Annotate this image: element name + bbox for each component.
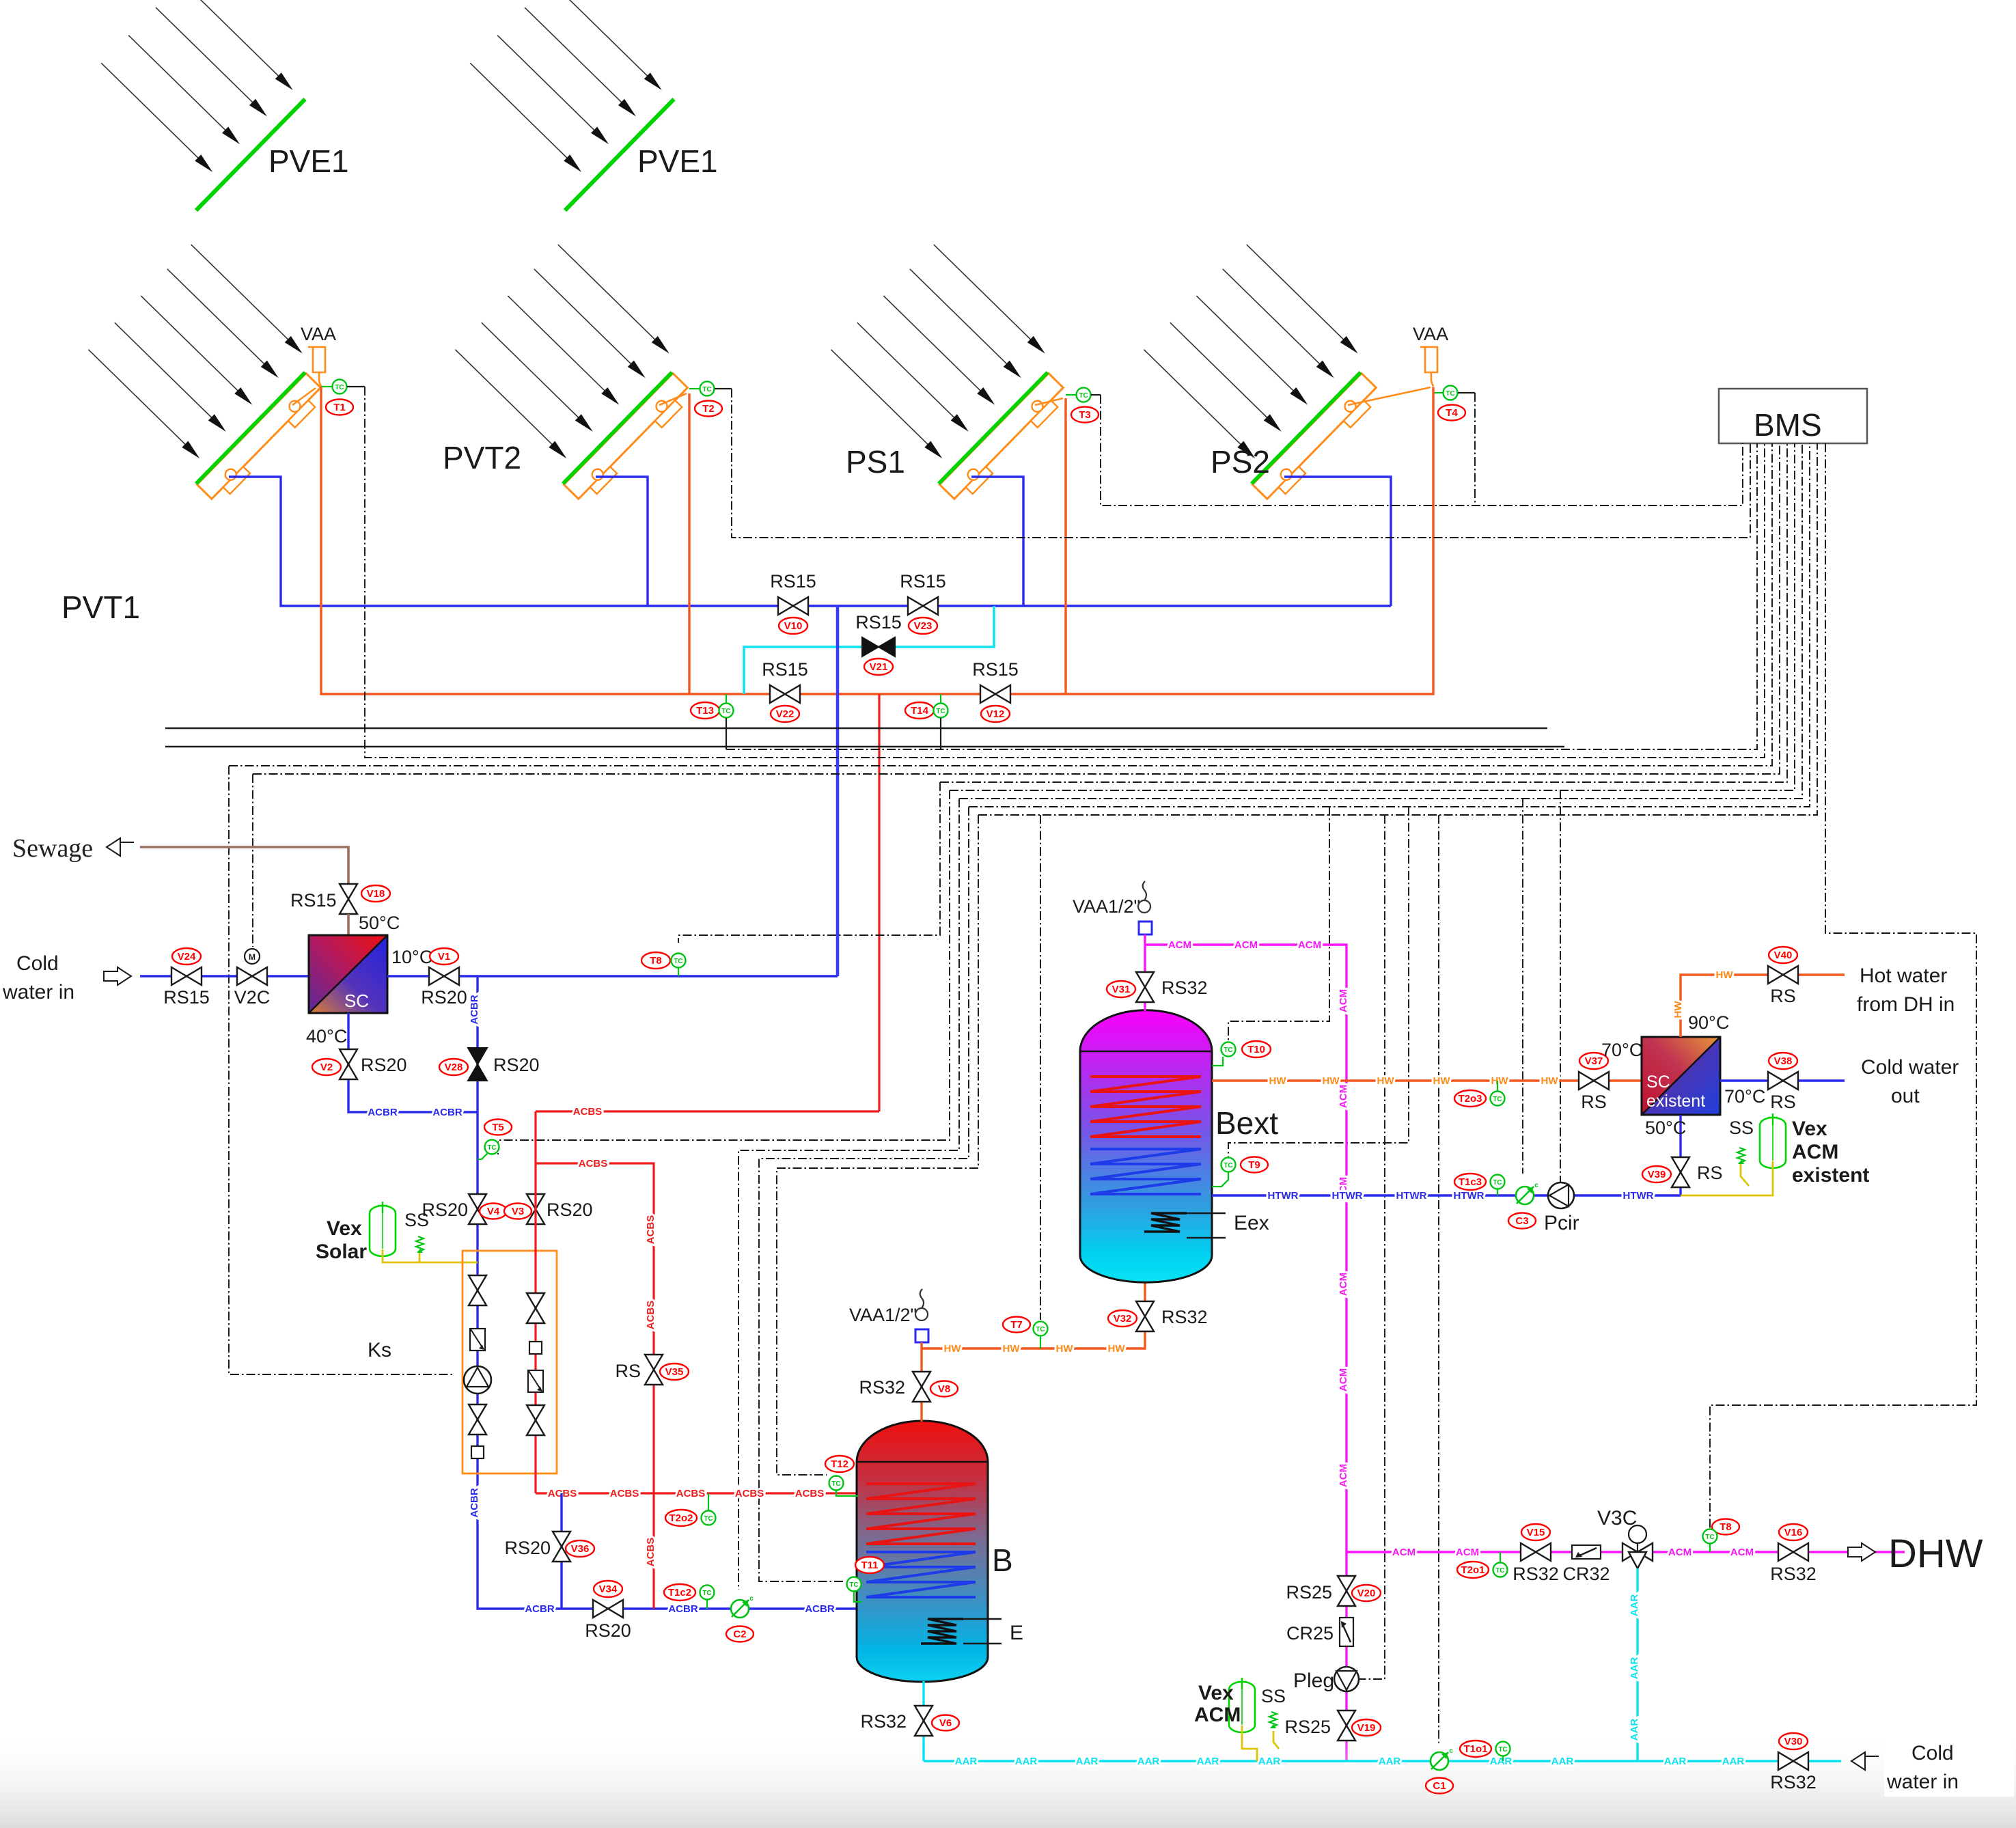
valve RS15 V24 [171,967,202,985]
svg-text:V40: V40 [1774,950,1793,961]
svg-text:BMS: BMS [1754,407,1822,443]
drain square Ks [471,1446,484,1458]
svg-text:HW: HW [1056,1343,1074,1355]
svg-text:ACM: ACM [1792,1141,1838,1163]
svg-text:RS15: RS15 [972,659,1019,680]
wire blue SC existent bottom [1679,1115,1681,1195]
svg-text:M: M [249,952,256,962]
wire red ACBS stack [534,1111,536,1493]
roof line 1 [165,728,1547,730]
svg-text:HW: HW [1541,1075,1559,1087]
svg-text:Eex: Eex [1234,1212,1269,1234]
sensor TC T9 [1221,1158,1236,1172]
svg-text:50°C: 50°C [359,913,400,933]
svg-text:T2o1: T2o1 [1461,1564,1485,1576]
roof line 2 [165,746,1564,748]
svg-text:AAR: AAR [1664,1756,1687,1767]
sensor TC T2 [689,388,700,389]
sensor TC T14 [905,702,934,719]
svg-text:CR32: CR32 [1562,1564,1610,1584]
collector PVT1 [74,241,338,506]
svg-text:HTWR: HTWR [1623,1190,1654,1202]
tank Bext [1080,1010,1212,1283]
heater E in B [921,1619,963,1644]
safety valve SS ACM [1269,1712,1277,1728]
svg-text:ACBR: ACBR [525,1603,554,1615]
expansion vessel Vex ACM existent [1760,1113,1786,1168]
svg-text:T1c3: T1c3 [1459,1176,1482,1188]
svg-text:ACM: ACM [1668,1547,1691,1558]
wire magenta Bext top [1144,934,1146,1011]
sewage arrow [107,838,134,856]
sensor TC T12 [825,1456,854,1472]
svg-text:V23: V23 [914,620,933,632]
svg-text:SS: SS [1729,1118,1754,1138]
svg-text:HTWR: HTWR [1454,1190,1485,1202]
coil red in B [866,1484,976,1544]
svg-text:T8: T8 [1720,1521,1732,1533]
svg-text:PVT1: PVT1 [61,590,140,625]
valve RS32 V15 [1521,1543,1551,1561]
svg-text:SC: SC [344,991,369,1011]
wire red ACBS top link [536,1110,879,1112]
svg-text:RS15: RS15 [290,890,337,911]
signal bus Pleg [1359,815,1385,1679]
wire magenta ACM riser [1145,945,1347,1761]
svg-text:SS: SS [1261,1686,1286,1706]
svg-text:PVE1: PVE1 [268,143,349,179]
svg-text:ACM: ACM [1338,1368,1349,1391]
sensor TC T2o1 [1457,1562,1489,1578]
wire cyan bypass [744,606,994,694]
svg-text:70°C: 70°C [1601,1040,1642,1060]
svg-text:ACBS: ACBS [676,1488,706,1499]
pump Pleg [1334,1667,1359,1691]
svg-text:AAR: AAR [1722,1756,1745,1767]
svg-text:V19: V19 [1357,1722,1376,1734]
wire blue SC outlet to riser [387,975,838,977]
wire red ACBS main to tank B [536,1492,857,1494]
svg-text:ACM: ACM [1338,1464,1349,1487]
signal bus T7 [1040,815,1041,1320]
svg-text:DHW: DHW [1888,1532,1983,1576]
svg-text:water in: water in [2,981,74,1003]
svg-text:V2C: V2C [234,987,271,1008]
svg-text:V15: V15 [1527,1527,1545,1538]
svg-text:ACM: ACM [1456,1547,1479,1558]
svg-text:ACM: ACM [1730,1547,1754,1558]
svg-text:ACM: ACM [1194,1704,1241,1726]
wire PVT2 orange stub [659,393,687,405]
svg-text:RS20: RS20 [585,1620,631,1641]
filter on ACBR in Ks [470,1329,485,1351]
valve RS20 V3 [527,1194,544,1224]
svg-text:AAR: AAR [1258,1756,1281,1767]
svg-text:RS32: RS32 [859,1377,905,1398]
sensor TC T2o3 [1454,1090,1486,1107]
svg-text:Vex: Vex [327,1217,362,1240]
svg-text:RS15: RS15 [163,987,210,1008]
valve RS32 V16 [1778,1543,1808,1561]
svg-text:Ks: Ks [368,1339,391,1361]
svg-text:RS: RS [1697,1163,1723,1183]
valve RS32 V32 [1136,1301,1154,1331]
signal bus T11 [969,443,1810,807]
sensor TC T1o1 [1460,1741,1491,1757]
svg-text:RS: RS [1581,1092,1607,1112]
svg-text:AAR: AAR [1015,1756,1038,1767]
signal bus Ks pump [229,443,1772,766]
svg-text:C3: C3 [1515,1215,1528,1227]
svg-text:T1c2: T1c2 [668,1587,691,1598]
svg-text:ACBS: ACBS [610,1488,639,1499]
signal bus outer to T8 DHW [1710,443,1976,1529]
expansion vessel Vex ACM [1229,1678,1255,1732]
wire PVT2 blue drop [596,477,648,606]
valve RS20 V2 [340,1049,357,1079]
svg-text:C2: C2 [733,1629,746,1640]
svg-text:water in: water in [1886,1771,1959,1793]
svg-text:HTWR: HTWR [1396,1190,1427,1202]
svg-text:70°C: 70°C [1724,1086,1765,1107]
svg-text:T2o2: T2o2 [669,1512,693,1524]
wire PS1 orange drop [1064,398,1066,694]
sensor TC T3 [1066,394,1076,396]
valve RS V38 [1768,1072,1798,1090]
svg-text:HW: HW [1323,1075,1340,1087]
valve RS32 V30 [1778,1752,1808,1770]
svg-text:Vex: Vex [1792,1118,1827,1140]
svg-text:SC: SC [1646,1072,1670,1092]
svg-text:V1: V1 [438,951,450,963]
svg-text:RS15: RS15 [900,571,946,592]
svg-text:T14: T14 [911,705,929,717]
svg-text:RS32: RS32 [1161,1307,1208,1327]
svg-text:V18: V18 [367,888,385,900]
valve RS20 V34 [593,1600,623,1618]
signal bus C2 [959,443,1802,799]
sensor TC T7 [1003,1317,1030,1333]
sensor TC T4 [1433,392,1443,393]
svg-text:Bext: Bext [1215,1105,1278,1141]
svg-text:T1o1: T1o1 [1463,1743,1487,1755]
svg-text:RS32: RS32 [1770,1772,1817,1792]
heat exchanger SC existent [1642,1037,1720,1115]
svg-text:HW: HW [1003,1343,1021,1355]
signal bus T8 [940,443,1787,782]
svg-text:V32: V32 [1114,1313,1132,1325]
svg-text:RS: RS [1770,1092,1796,1112]
wire brown to SC [347,914,350,935]
svg-text:V31: V31 [1112,984,1131,995]
svg-text:HW: HW [1672,1001,1684,1019]
valve RS15 V23 [908,597,938,615]
safety valve SS solar [416,1236,424,1253]
valve RS32 V8 [913,1372,930,1402]
svg-text:RS20: RS20 [493,1055,540,1075]
svg-text:ACM: ACM [1234,939,1258,951]
valve RS V40 [1768,966,1798,984]
svg-text:V37: V37 [1585,1055,1603,1067]
valve RS15 V21 closed [862,637,895,656]
svg-text:RS25: RS25 [1286,1582,1332,1603]
svg-text:Hot water: Hot water [1860,965,1947,987]
check valve CR32 [1572,1545,1601,1559]
valve RS25 V19 [1338,1711,1355,1741]
svg-text:AAR: AAR [1551,1756,1574,1767]
svg-text:V3C: V3C [1597,1507,1637,1529]
signal bus T3/T4 to BMS [1101,395,1743,506]
signal T1 bus [365,387,1765,758]
svg-text:CR25: CR25 [1286,1623,1334,1644]
svg-text:HW: HW [1269,1075,1287,1087]
valve on ACBS in Ks lower [527,1405,544,1435]
pump Ks [464,1366,491,1394]
svg-text:AAR: AAR [1379,1756,1401,1767]
svg-text:T10: T10 [1247,1044,1265,1055]
relief valve VAA on PVT1 [308,347,325,372]
svg-text:T1: T1 [333,402,346,413]
svg-text:V12: V12 [986,708,1005,720]
valve RS32 V6 [915,1706,933,1736]
svg-text:C1: C1 [1433,1780,1446,1792]
svg-text:RS20: RS20 [361,1055,407,1075]
collector PS2 [1129,241,1394,506]
svg-text:RS32: RS32 [860,1711,907,1732]
signal bus C1 [1438,815,1439,1743]
wire red drop to ACBS [878,694,880,1111]
valve on ACBR in Ks [469,1275,486,1305]
sensor TC T1c2 [664,1584,695,1601]
svg-text:AAR: AAR [1629,1719,1640,1741]
svg-text:V24: V24 [178,951,196,963]
sensor TC T8 [641,952,670,969]
3-way valve V3C [1623,1525,1653,1568]
filter on ACBS in Ks [528,1370,543,1392]
valve RS15 V12 [980,685,1010,703]
valve RS15 V10 [778,597,808,615]
svg-text:RS15: RS15 [762,659,808,680]
svg-text:ACBS: ACBS [735,1488,764,1499]
svg-text:V16: V16 [1784,1527,1803,1538]
svg-text:ACBR: ACBR [432,1107,462,1118]
svg-text:V21: V21 [870,661,888,673]
svg-text:10°C: 10°C [391,947,432,967]
svg-text:HTWR: HTWR [1268,1190,1299,1202]
valve RS20 V36 bypass [560,1493,562,1609]
wire blue HTWR [1212,1194,1681,1196]
wire cyan AAR from V3C [1636,1568,1638,1761]
wire PS1 orange stub [1035,398,1063,405]
svg-text:T12: T12 [831,1458,848,1470]
signal bus V2C [253,443,1780,774]
svg-text:T13: T13 [696,705,714,717]
svg-text:VAA1/2": VAA1/2" [1073,896,1140,917]
valve RS20 V28 closed [468,1048,487,1081]
wire blue SC bottom drop [348,1013,478,1112]
svg-text:ACBS: ACBS [645,1301,657,1330]
svg-text:Cold water: Cold water [1861,1056,1959,1079]
svg-text:T4: T4 [1446,407,1458,419]
svg-text:RS20: RS20 [504,1538,551,1558]
svg-text:Sewage: Sewage [12,834,93,863]
svg-text:RS32: RS32 [1513,1564,1559,1584]
svg-text:50°C: 50°C [1645,1118,1686,1138]
svg-text:HTWR: HTWR [1332,1190,1363,1202]
svg-text:ACBS: ACBS [795,1488,825,1499]
svg-text:ACBS: ACBS [645,1215,657,1245]
svg-text:RS: RS [1770,986,1796,1006]
svg-text:40°C: 40°C [306,1026,347,1047]
wire blue collector return main [229,477,1391,606]
wire sewage brown [140,847,348,884]
svg-text:V30: V30 [1784,1736,1803,1747]
wire ACBR main drop [478,976,857,1609]
wire yellow vex solar [383,1249,478,1262]
relief valve VAA on PS2 [1420,347,1437,372]
valve RS20 V4 [469,1194,486,1224]
svg-text:AAR: AAR [1629,1594,1640,1617]
svg-text:PS1: PS1 [846,444,905,480]
svg-text:existent: existent [1646,1092,1705,1111]
svg-text:ACBS: ACBS [573,1106,603,1118]
svg-text:HW: HW [1108,1343,1126,1355]
svg-text:HW: HW [1377,1075,1395,1087]
wire orange HW link B-Bext [922,1282,1145,1348]
signal bus T9 [1228,807,1409,1157]
svg-text:RS15: RS15 [770,571,816,592]
signal bus C3 [1522,799,1523,1174]
svg-text:Cold: Cold [1911,1742,1954,1764]
DHW arrow [1848,1543,1875,1561]
svg-text:HW: HW [1491,1075,1509,1087]
sensor TC T2o2 [665,1510,697,1526]
svg-text:V36: V36 [571,1543,590,1555]
sensor TC T11 [855,1557,884,1573]
wire cyan AAR main [924,1760,1841,1762]
control valve C2 [731,1595,754,1618]
cold water in arrow bottom [1851,1752,1879,1770]
signal bus Pcir [1560,790,1561,1183]
heater Eex in Bext [1144,1213,1187,1232]
svg-text:ACBR: ACBR [668,1603,698,1615]
svg-text:T3: T3 [1079,409,1091,421]
expansion vessel Vex Solar [370,1202,396,1256]
valve RS V39 [1672,1157,1689,1187]
control valve C3 [1516,1182,1538,1204]
wire orange collector supply main [321,387,1433,694]
svg-text:T2: T2 [702,403,715,415]
wire blue cold water out [1720,1079,1845,1081]
drain square ACBS [529,1342,542,1354]
svg-text:V38: V38 [1774,1055,1793,1067]
svg-text:AAR: AAR [1629,1657,1640,1680]
svg-text:VAA: VAA [301,324,336,344]
svg-text:ACM: ACM [1392,1547,1416,1558]
valve RS V35 [645,1355,663,1385]
svg-text:V34: V34 [599,1583,618,1595]
footer shade band [0,1728,2016,1828]
svg-text:V22: V22 [776,708,795,720]
svg-text:ACM: ACM [1298,939,1321,951]
svg-text:HW: HW [1716,969,1734,981]
svg-text:V6: V6 [939,1717,952,1729]
svg-text:T2o3: T2o3 [1458,1093,1482,1105]
svg-text:ACM: ACM [1338,989,1349,1012]
svg-text:T9: T9 [1248,1159,1260,1171]
svg-text:existent: existent [1792,1164,1869,1187]
svg-text:ACBR: ACBR [469,1488,480,1517]
svg-text:ACBS: ACBS [579,1158,608,1169]
wire PS1 blue drop [971,477,1023,606]
svg-text:Pleg: Pleg [1293,1670,1334,1692]
check valve CR25 [1340,1618,1353,1646]
valve on ACBS in Ks [527,1293,544,1323]
wire orange DH inlet [1681,975,1845,1037]
PV array PVE1 (left) [74,0,307,210]
wire cyan B bottom drop [922,1681,924,1761]
sensor TC T8 dhw [1712,1519,1739,1535]
coil red in Bext [1090,1077,1201,1137]
sensor TC T1c3 [1454,1174,1486,1190]
svg-text:ACBR: ACBR [805,1603,834,1615]
svg-text:AAR: AAR [955,1756,978,1767]
svg-text:VAA1/2": VAA1/2" [849,1305,917,1325]
valve on ACBR in Ks lower [469,1404,486,1435]
svg-text:B: B [992,1542,1013,1578]
tank B [857,1421,988,1682]
wire orange HW Bext outlet [1212,1079,1642,1081]
svg-text:from DH in: from DH in [1857,993,1955,1016]
pump Pcir [1548,1182,1574,1208]
svg-text:T11: T11 [861,1560,878,1571]
signal T13 bus [726,443,1757,749]
svg-text:V35: V35 [665,1366,684,1378]
valve RS15 V18 [340,884,357,914]
svg-text:T7: T7 [1010,1319,1023,1331]
wire cold water blue [140,975,309,977]
valve RS25 V20 [1338,1576,1355,1606]
svg-text:V20: V20 [1357,1588,1376,1599]
svg-text:SS: SS [404,1210,429,1230]
sensor TC T5 [484,1120,512,1135]
sensor TC T13 [691,702,719,719]
svg-text:ACBS: ACBS [645,1538,657,1567]
svg-text:PVE1: PVE1 [637,143,718,179]
sensor TC T1 [321,386,332,387]
svg-text:V3: V3 [512,1206,524,1217]
valve V2C motorized [237,967,267,985]
wire orange B top [920,1342,922,1422]
wire PVT2 orange drop [688,393,690,694]
svg-text:RS32: RS32 [1770,1564,1817,1584]
svg-text:ACBR: ACBR [469,995,480,1024]
signal bus T2 to BMS [732,389,1750,538]
svg-text:AAR: AAR [1137,1756,1160,1767]
svg-text:HW: HW [944,1343,962,1355]
svg-text:V4: V4 [487,1206,500,1217]
svg-text:out: out [1891,1085,1920,1107]
wire yellow vex ACM [1242,1726,1279,1761]
control valve C1 [1431,1747,1453,1770]
signal bus T12 [978,443,1817,815]
svg-text:Pcir: Pcir [1544,1212,1579,1234]
signal bus T10 [1228,807,1329,1042]
svg-text:T8: T8 [650,955,662,967]
safety valve SS existent [1737,1148,1745,1164]
svg-text:ACM: ACM [1338,1085,1349,1108]
svg-text:VAA: VAA [1413,324,1448,344]
